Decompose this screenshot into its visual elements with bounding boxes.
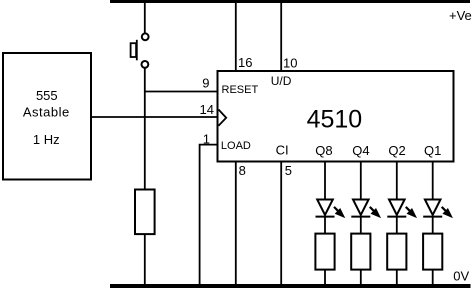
svg-text:14: 14 — [200, 102, 214, 117]
wire: LED D4 to resistor R5 — [432, 217, 434, 234]
LED D4 — [423, 200, 452, 218]
svg-text:Astable: Astable — [23, 104, 70, 119]
wire: resistor R5 to 0V rail — [432, 270, 434, 288]
wire: resistor R1 to 0V rail — [144, 234, 146, 287]
svg-text:1: 1 — [203, 131, 210, 146]
svg-text:0V: 0V — [453, 269, 469, 284]
svg-text:RESET: RESET — [222, 84, 259, 96]
svg-text:CI: CI — [276, 143, 289, 158]
svg-text:555: 555 — [36, 88, 58, 103]
resistor R5 — [423, 234, 442, 270]
svg-text:LOAD: LOAD — [221, 140, 251, 152]
resistor R2 — [315, 234, 334, 270]
wire: pin 8 to 0V rail — [235, 162, 237, 288]
svg-text:U/D: U/D — [271, 74, 292, 88]
wire: Q2 output to LED D3 — [396, 162, 398, 200]
wire: Q8 output to LED D1 — [324, 162, 326, 200]
wire: pin 5 CI to 0V rail — [280, 162, 282, 288]
resistor R1 — [135, 190, 155, 235]
wire: switch to resistor R1 — [144, 68, 146, 190]
wire: resistor R2 to 0V rail — [324, 270, 326, 288]
label 555 Astable 1 Hz — [23, 88, 70, 147]
wire: resistor R4 to 0V rail — [396, 270, 398, 288]
555 astable block U1 — [3, 53, 91, 180]
resistor R3 — [351, 234, 370, 270]
wire: resistor R3 to 0V rail — [360, 270, 362, 288]
0V supply rail — [110, 284, 471, 288]
svg-text:Q4: Q4 — [352, 143, 369, 158]
wire: LED D1 to resistor R2 — [324, 217, 326, 234]
resistor R4 — [387, 234, 406, 270]
svg-text:8: 8 — [239, 163, 246, 178]
wire: pin 9 reset to switch node — [145, 91, 218, 93]
svg-text:Q1: Q1 — [424, 143, 441, 158]
svg-text:16: 16 — [238, 55, 252, 70]
LED D1 — [316, 200, 345, 218]
svg-text:4510: 4510 — [307, 106, 363, 134]
LED D2 — [351, 200, 380, 218]
svg-text:9: 9 — [202, 75, 209, 90]
+Ve supply rail — [110, 0, 470, 3]
wire: LED D3 to resistor R4 — [396, 217, 398, 234]
wire: pin 10 to +Ve rail — [280, 2, 282, 72]
svg-text:5: 5 — [285, 163, 292, 178]
wire: pin 16 to +Ve rail — [235, 2, 237, 72]
svg-text:10: 10 — [283, 55, 297, 70]
push switch SW1 (push-to-make) — [131, 33, 149, 67]
LED D3 — [387, 200, 416, 218]
svg-text:Q8: Q8 — [315, 143, 332, 158]
svg-text:1 Hz: 1 Hz — [33, 132, 60, 147]
clock input chevron pin 14 — [219, 110, 227, 126]
svg-text:Q2: Q2 — [388, 143, 405, 158]
IC U2 4510 counter box — [218, 71, 454, 162]
wire: Q4 output to LED D2 — [360, 162, 362, 200]
wire: 555 output to clock pin 14 — [91, 116, 218, 118]
wire: pin 1 load to 0V rail — [200, 145, 218, 288]
wire: LED D2 to resistor R3 — [360, 217, 362, 234]
wire: top rail down to switch — [144, 2, 146, 34]
svg-text:+Ve: +Ve — [449, 8, 472, 23]
wire: Q1 output to LED D4 — [432, 162, 434, 200]
